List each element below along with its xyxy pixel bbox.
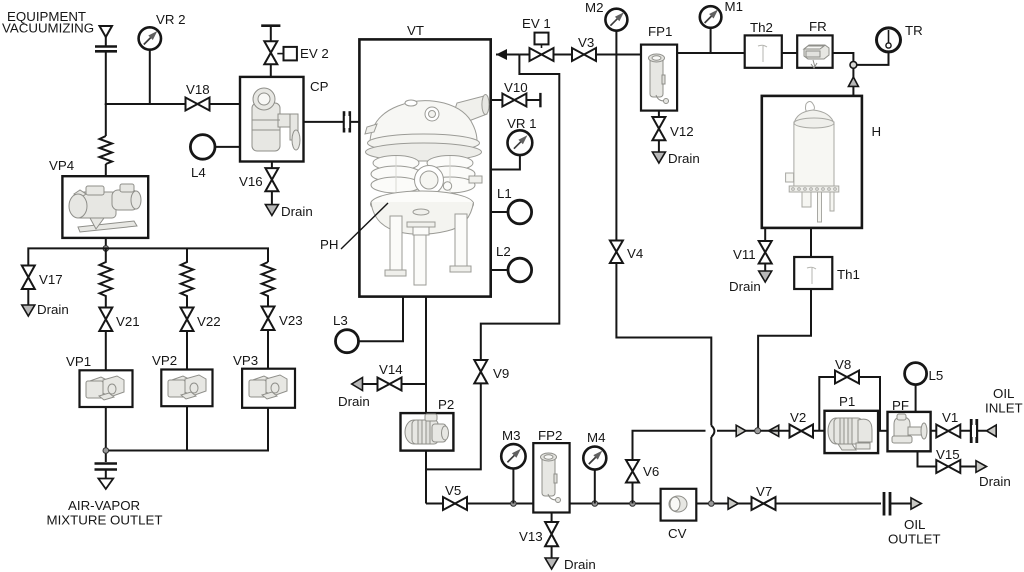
svg-text:V9: V9 bbox=[493, 366, 509, 381]
svg-text:OIL: OIL bbox=[904, 517, 925, 532]
wire Th1 down to V2 junction bbox=[758, 289, 811, 428]
valve V3 bbox=[572, 35, 596, 61]
wire CP to V16 bbox=[271, 162, 273, 169]
valve V4 bbox=[610, 241, 643, 264]
bellows VP1 branch bbox=[100, 248, 113, 307]
svg-text:OIL: OIL bbox=[993, 386, 1014, 401]
wire VP3 to outlet manifold bbox=[106, 408, 268, 451]
wire horizontal to CP bbox=[105, 103, 240, 105]
wire V22 to VP2 bbox=[186, 331, 188, 370]
wire V4 down and right to hop bbox=[616, 263, 711, 426]
wire VT bottom to P2 bbox=[425, 297, 427, 414]
svg-text:V5: V5 bbox=[445, 483, 461, 498]
oil filter PF bbox=[888, 398, 931, 451]
flange on CP outlet bbox=[344, 111, 350, 132]
svg-text:VACUUMIZING: VACUUMIZING bbox=[2, 21, 94, 36]
valve V16 bbox=[239, 168, 278, 191]
svg-text:V16: V16 bbox=[239, 174, 263, 189]
svg-text:M3: M3 bbox=[502, 428, 520, 443]
node manifold junction bbox=[103, 246, 109, 252]
svg-text:VR 2: VR 2 bbox=[156, 12, 186, 27]
svg-text:VT: VT bbox=[407, 23, 424, 38]
wire EV2 to CP box bbox=[270, 64, 272, 77]
drain arrow V15 bbox=[976, 461, 987, 473]
wire FP1 bottom to V12 bbox=[658, 111, 660, 117]
wire V15 to drain bbox=[960, 466, 976, 468]
compressor CP bbox=[240, 77, 329, 162]
label PH with pointer bbox=[320, 203, 388, 252]
label OIL INLET bbox=[985, 386, 1023, 416]
gauge M2 bbox=[585, 0, 627, 31]
wire M2 stem down to V4 bbox=[615, 31, 617, 241]
wire hop to CV line bbox=[710, 437, 712, 504]
svg-text:Drain: Drain bbox=[729, 279, 761, 294]
flow arrow right on V2 line bbox=[736, 425, 746, 436]
svg-text:V1: V1 bbox=[942, 410, 958, 425]
valve V5 bbox=[443, 483, 467, 510]
svg-text:V13: V13 bbox=[519, 529, 543, 544]
node junction above check valve bbox=[850, 62, 857, 69]
filter FP1 bbox=[641, 24, 677, 111]
gauge L2 bbox=[496, 244, 532, 282]
svg-text:FP2: FP2 bbox=[538, 428, 562, 443]
wire V14 branch bbox=[352, 383, 426, 385]
svg-text:Drain: Drain bbox=[37, 302, 69, 317]
drain arrow V12 bbox=[652, 152, 665, 163]
valve V6 bbox=[626, 460, 659, 483]
svg-text:V15: V15 bbox=[936, 447, 960, 462]
gauge L3 bbox=[333, 313, 359, 353]
gauge M1 bbox=[700, 0, 743, 28]
wire M4 stem bbox=[594, 470, 596, 504]
node M4 junction bbox=[592, 501, 598, 507]
funnel inlet symbol bbox=[100, 26, 113, 37]
svg-text:P2: P2 bbox=[438, 397, 454, 412]
wire H bottom to Th1 bbox=[810, 228, 812, 257]
pump P1 bbox=[825, 394, 879, 453]
wire V13 to drain bbox=[551, 546, 553, 558]
valve V9 bbox=[474, 360, 509, 383]
valve V7 bbox=[752, 484, 776, 510]
svg-text:TR: TR bbox=[905, 23, 923, 38]
wire L2 stub bbox=[491, 269, 508, 271]
gauge VR1 bbox=[507, 116, 537, 155]
node V6 junction bbox=[630, 501, 636, 507]
wire V17 to drain bbox=[27, 289, 29, 305]
valve V22 bbox=[181, 308, 221, 332]
flow arrow right after CV bbox=[728, 498, 738, 509]
node M3 junction bbox=[511, 501, 517, 507]
flange on oil inlet bbox=[971, 419, 977, 443]
vacuum pump VP2 bbox=[152, 353, 213, 406]
svg-text:V2: V2 bbox=[790, 410, 806, 425]
heater relay Th1 bbox=[794, 257, 860, 289]
oil heater H box bbox=[762, 96, 881, 228]
check valve CV bbox=[661, 489, 697, 541]
wire VP4 to manifold junction bbox=[105, 238, 107, 252]
wire FP1 to Th2 bbox=[677, 52, 745, 54]
check valve arrow up bbox=[848, 68, 858, 96]
flange on oil outlet bbox=[884, 492, 890, 516]
svg-text:VP4: VP4 bbox=[49, 158, 74, 173]
drain arrow V11 bbox=[759, 271, 772, 282]
svg-text:Th2: Th2 bbox=[750, 20, 773, 35]
node outlet manifold junction bbox=[103, 448, 109, 454]
gauge M4 bbox=[583, 430, 606, 470]
svg-text:V12: V12 bbox=[670, 124, 694, 139]
drain arrow V16 bbox=[265, 205, 278, 216]
wire flange to outlet arrow bbox=[105, 470, 107, 479]
vacuum pump VP1 bbox=[66, 354, 133, 407]
bellows VP2 branch bbox=[181, 248, 194, 307]
svg-text:Th1: Th1 bbox=[837, 267, 860, 282]
svg-text:V21: V21 bbox=[116, 314, 140, 329]
solenoid valve EV1 bbox=[522, 16, 554, 61]
wire flange to outlet arrow bbox=[890, 503, 911, 505]
wire CV to V7 bbox=[696, 503, 881, 505]
gauge VR2 bbox=[139, 12, 186, 50]
bypass V8 bbox=[819, 357, 880, 431]
valve V17 bbox=[22, 266, 63, 290]
wire V9 down and left to P2 line bbox=[426, 383, 481, 469]
svg-text:L4: L4 bbox=[191, 165, 206, 180]
wire PF to V1 and flange bbox=[931, 430, 987, 432]
svg-text:V11: V11 bbox=[733, 247, 756, 262]
vessel drawing inside VT bbox=[365, 95, 489, 286]
gauge L4 bbox=[190, 135, 215, 180]
svg-text:V10: V10 bbox=[504, 80, 528, 95]
vacuum tank VT box bbox=[359, 23, 490, 297]
svg-text:V14: V14 bbox=[379, 362, 403, 377]
solenoid valve EV2 bbox=[264, 41, 329, 64]
wire V16 to drain bbox=[271, 191, 273, 204]
flow relay FR bbox=[797, 19, 832, 68]
valve V23 bbox=[262, 307, 303, 331]
svg-text:INLET: INLET bbox=[985, 401, 1023, 416]
wire node to TR bbox=[857, 52, 889, 65]
filter FP2 bbox=[533, 428, 569, 513]
wire junction to P1 bbox=[761, 430, 825, 432]
wire cap to EV2 valve bbox=[270, 26, 272, 42]
wire bellows to VP4 bbox=[105, 164, 107, 176]
drain arrow V13 bbox=[545, 558, 558, 569]
wire V15 branch bbox=[918, 451, 937, 466]
wire funnel to flange bbox=[105, 36, 107, 46]
wire vertical down to bellows bbox=[105, 104, 107, 136]
gauge M3 bbox=[501, 428, 525, 468]
oil outlet arrow bbox=[911, 498, 921, 509]
bellows on vacuum line bbox=[100, 136, 113, 164]
wire flange down to main junction bbox=[105, 52, 107, 105]
svg-text:M1: M1 bbox=[725, 0, 743, 14]
svg-text:L5: L5 bbox=[929, 368, 944, 383]
valve V13 bbox=[519, 522, 558, 546]
svg-text:VR 1: VR 1 bbox=[507, 116, 537, 131]
svg-text:CP: CP bbox=[310, 79, 329, 94]
valve V21 bbox=[99, 308, 139, 332]
valve V10 stub bbox=[491, 80, 541, 107]
wire top main line bbox=[519, 54, 641, 56]
valve V12 bbox=[652, 117, 693, 140]
vacuum pump VP4 bbox=[49, 158, 148, 238]
svg-text:MIXTURE OUTLET: MIXTURE OUTLET bbox=[47, 513, 163, 528]
svg-text:H: H bbox=[872, 124, 882, 139]
tee cap above EV2 bbox=[261, 24, 280, 27]
flange (union) on vacuum line bbox=[95, 47, 117, 52]
svg-text:V17: V17 bbox=[39, 272, 63, 287]
svg-text:Drain: Drain bbox=[564, 557, 596, 572]
gauge L1 bbox=[497, 186, 532, 224]
wire M3 stem bbox=[512, 469, 514, 504]
wire V11 to drain bbox=[764, 264, 766, 272]
drain arrow V14 bbox=[352, 378, 363, 391]
wire VP2 to outlet manifold bbox=[186, 406, 188, 450]
wire V23 to VP3 bbox=[267, 330, 269, 369]
svg-text:L3: L3 bbox=[333, 313, 348, 328]
valve V18 bbox=[186, 82, 210, 111]
drain arrow V17 bbox=[22, 305, 35, 316]
flange on air-vapor outlet bbox=[95, 464, 118, 470]
wire V12 to drain bbox=[658, 140, 660, 152]
svg-text:V23: V23 bbox=[279, 313, 303, 328]
svg-text:Drain: Drain bbox=[668, 151, 700, 166]
label EQUIPMENT VACUUMIZING bbox=[2, 9, 94, 36]
svg-text:V4: V4 bbox=[627, 246, 643, 261]
flow arrow left on V2 line bbox=[769, 425, 779, 436]
svg-text:EV 2: EV 2 bbox=[300, 46, 329, 61]
node V2 line junction bbox=[755, 428, 761, 434]
svg-text:V7: V7 bbox=[756, 484, 772, 499]
wire CP outlet to VT bbox=[304, 121, 360, 123]
pipe hop over V6-V2 line bbox=[711, 426, 714, 438]
svg-text:V22: V22 bbox=[197, 314, 221, 329]
label AIR-VAPOR MIXTURE OUTLET bbox=[47, 498, 163, 528]
wire Th2 to FR bbox=[782, 52, 797, 54]
svg-text:Drain: Drain bbox=[281, 204, 313, 219]
wire FP2 bottom to V13 bbox=[551, 513, 553, 523]
svg-text:V3: V3 bbox=[578, 35, 594, 50]
wire VR1 to VT bbox=[491, 155, 520, 169]
gauge L5 bbox=[905, 363, 944, 385]
svg-text:VP2: VP2 bbox=[152, 353, 177, 368]
arrow into VT bbox=[496, 49, 507, 60]
svg-text:CV: CV bbox=[668, 526, 687, 541]
svg-text:VP3: VP3 bbox=[233, 353, 258, 368]
svg-text:FP1: FP1 bbox=[648, 24, 672, 39]
wire VR2 stem bbox=[149, 50, 151, 104]
air-vapor outlet arrow bbox=[98, 479, 113, 490]
wire V6 up and right to V2 line bbox=[633, 431, 706, 460]
svg-text:V8: V8 bbox=[835, 357, 851, 372]
svg-text:Drain: Drain bbox=[979, 474, 1011, 489]
wire V6 stem bbox=[632, 483, 634, 504]
svg-text:L2: L2 bbox=[496, 244, 511, 259]
wire after hop to arrow bbox=[717, 430, 757, 432]
heater relay Th2 bbox=[745, 20, 782, 68]
wire suction manifold bbox=[28, 248, 268, 265]
wire L3 to VT bottom bbox=[359, 297, 404, 342]
svg-text:P1: P1 bbox=[839, 394, 855, 409]
wire top line into VT with arrow bbox=[496, 54, 519, 56]
valve V15 bbox=[936, 447, 960, 473]
svg-text:L1: L1 bbox=[497, 186, 512, 201]
svg-text:M2: M2 bbox=[585, 0, 603, 15]
label OIL OUTLET bbox=[888, 517, 940, 547]
wire L4 to CP bbox=[215, 146, 240, 148]
oil inlet arrow bbox=[986, 425, 996, 437]
wire L1 stub bbox=[491, 211, 508, 213]
valve V11 bbox=[733, 228, 772, 264]
node CV junction bbox=[709, 501, 715, 507]
wire P1 to PF bbox=[878, 430, 887, 432]
svg-text:EV 1: EV 1 bbox=[522, 16, 551, 31]
wire P2 down to bottom line bbox=[425, 451, 427, 504]
wire L5 stem to PF bbox=[915, 385, 917, 412]
svg-text:M4: M4 bbox=[587, 430, 605, 445]
pump P2 bbox=[401, 397, 455, 451]
svg-text:Drain: Drain bbox=[338, 394, 370, 409]
thermometer TR bbox=[877, 23, 923, 52]
bellows VP3 branch bbox=[262, 262, 275, 307]
wire bottom main line bbox=[426, 503, 661, 505]
vacuum pump VP3 bbox=[233, 353, 295, 408]
svg-text:PH: PH bbox=[320, 237, 338, 252]
svg-text:AIR-VAPOR: AIR-VAPOR bbox=[68, 498, 140, 513]
wire V21 to VP1 bbox=[105, 331, 107, 370]
wire M1 stem bbox=[710, 28, 712, 53]
wire VP1 to outlet manifold bbox=[105, 407, 107, 462]
vessel drawing inside H bbox=[786, 102, 839, 223]
svg-text:OUTLET: OUTLET bbox=[888, 532, 940, 547]
wire FR to corner node bbox=[833, 53, 854, 62]
valve V14 bbox=[378, 362, 403, 391]
svg-text:V18: V18 bbox=[186, 82, 210, 97]
svg-text:FR: FR bbox=[809, 19, 827, 34]
wire EV1 bypass down bbox=[481, 55, 560, 361]
valve V1 bbox=[936, 410, 960, 438]
svg-text:VP1: VP1 bbox=[66, 354, 91, 369]
valve V2 bbox=[790, 410, 814, 438]
svg-text:V6: V6 bbox=[643, 464, 659, 479]
